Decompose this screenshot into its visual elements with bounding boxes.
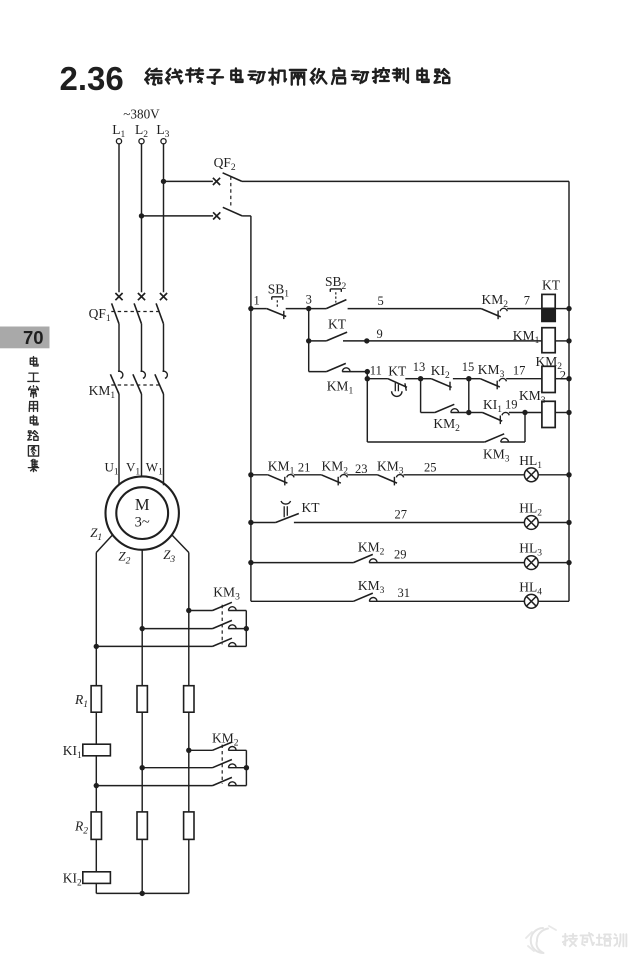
wire V1 to motor [141, 394, 143, 476]
wire rotor right down [188, 553, 190, 686]
junction right bus HL1 [566, 472, 571, 477]
wire corner to KM2 contact [421, 412, 435, 414]
svg-text:KT: KT [388, 364, 407, 379]
wire KI2 to node 15 [453, 378, 469, 380]
wire left R2 to KI2 [95, 839, 97, 871]
junction node 15 [466, 376, 471, 381]
wire bus to KT delayed-opening contact [251, 522, 276, 524]
contact KM2 NO (lamp row) [353, 554, 377, 562]
label KM2 (row1 contact) [482, 292, 509, 310]
node label 7 [524, 293, 530, 307]
wire node11 to KT delayed contact [367, 378, 388, 380]
resistor R2 (left element) [91, 812, 101, 840]
junction rotor centre line KM3 tap [140, 626, 145, 631]
svg-text:~380V: ~380V [123, 107, 160, 122]
wire KM3 branch2 left [142, 628, 212, 630]
junction node 13 [418, 376, 423, 381]
wire KM3 NC to KM2 coil [506, 378, 542, 380]
label KM3 (row3 contact) [478, 362, 505, 380]
wire L1 phase down [118, 144, 120, 292]
wire KM2 contact to junction [451, 412, 469, 414]
wire junction to KI1 contact [469, 412, 483, 414]
node label 5 [378, 294, 384, 308]
contact KI1 NC (overcurrent) [483, 412, 510, 424]
wire KM3 branch1 right [228, 610, 246, 612]
wire right R2 to star point [188, 839, 190, 893]
svg-text:31: 31 [398, 586, 411, 600]
label R2 [74, 819, 88, 837]
time relay coil KT [542, 294, 555, 321]
wire L2 QF1 to KM1 [141, 324, 143, 372]
junction rotor left line KM2 tap [94, 783, 99, 788]
label Z3 [163, 547, 175, 565]
node label 17 [513, 363, 526, 377]
wire node9 to KM1 coil [367, 340, 542, 342]
contactor KM2 contact 3 [213, 777, 237, 785]
wire KM3 branch3 left [96, 645, 212, 647]
wire KM3 NO to lamp HL4 [369, 600, 524, 602]
wire KM1 coil to right bus [555, 340, 569, 342]
wire KM2 branch2 left [142, 767, 212, 769]
wire HL1 to right bus [538, 474, 569, 476]
wire node11 down to row5 [366, 379, 368, 442]
wire QF2 pole 2 to control bus corner [242, 215, 251, 217]
wire to KM3 NC lamp row [347, 474, 377, 476]
label KI1 (contact) [483, 397, 502, 415]
wire KM3 branch3 right [228, 645, 246, 647]
svg-text:2: 2 [560, 369, 566, 383]
overcurrent relay KI2 coil [83, 872, 111, 884]
resistor R1 (right element) [184, 686, 194, 713]
wire SB2 to KM2 NC [348, 308, 482, 310]
junction KM2 shorting bar middle [244, 765, 249, 770]
wire node3 down [308, 309, 310, 341]
wire node11 vertical link [366, 372, 368, 379]
label U1 [105, 459, 119, 477]
node label 1 [254, 293, 260, 307]
contactor KM2 contact 2 [213, 760, 237, 768]
svg-text:M: M [135, 495, 150, 514]
wire L2 to QF2 pole 2 [142, 215, 214, 217]
junction rotor left line KM3 tap [94, 644, 99, 649]
svg-text:11: 11 [370, 363, 382, 377]
motor label 3~ [135, 515, 150, 531]
contact KM3 NC (lamp row) [378, 475, 404, 486]
junction row4 under node15 [466, 410, 471, 415]
junction on L3 for control tap [161, 179, 166, 184]
label KM2 (lamp row contact) [322, 459, 349, 477]
pushbutton SB1 (NC stop) [267, 297, 286, 319]
junction node 1 [248, 306, 253, 311]
node label 2 [560, 369, 566, 383]
contactor KM3 contact 1 [213, 602, 237, 610]
node label 13 [413, 360, 426, 374]
contact KT NO delayed-opening (lamp row) [276, 501, 299, 523]
wire L3 phase down [163, 144, 165, 292]
wire node3-row2 down [308, 341, 310, 372]
sidebar page tab 70 [0, 327, 50, 349]
wire KM2 shorting bar [245, 750, 247, 785]
wire rotor centre down [141, 550, 143, 686]
QF2 linkage dashed line [230, 177, 232, 208]
svg-text:23: 23 [355, 462, 368, 476]
svg-text:13: 13 [413, 360, 426, 374]
wire KM2 branch2 right [228, 767, 246, 769]
contactor KM2 contact 1 [213, 742, 237, 750]
resistor R1 (left element) [91, 686, 101, 713]
wire bus to KM1 NC [251, 474, 268, 476]
contact KM3 NO self-latch [485, 434, 509, 442]
page title number 2.36 [60, 60, 124, 97]
wire centre R1 down [141, 712, 143, 812]
label Z2 [118, 549, 130, 567]
junction left bus HL3 [248, 560, 253, 565]
svg-text:KT: KT [328, 316, 347, 331]
circuit breaker QF1 (3 poles) [112, 293, 168, 324]
wire to KM2 NC lamp row [294, 474, 322, 476]
wire left R1 to KI1 [95, 712, 97, 744]
terminal L1 [112, 122, 125, 144]
wire L3 QF1 to KM1 [163, 324, 165, 372]
wire node1 to SB1 [251, 308, 267, 310]
wire KT to lamp HL2 [294, 522, 525, 524]
terminal L3 [156, 122, 169, 144]
contactor KM1 main contacts (3 poles) [110, 371, 167, 394]
svg-text:1: 1 [254, 293, 260, 307]
node label 31 [398, 586, 411, 600]
junction rotor right line KM3 tap [186, 608, 191, 613]
contactor coil KM2 [542, 366, 555, 392]
label QF2 [214, 155, 236, 173]
wire KM2 NC to KT coil [507, 308, 542, 310]
junction KM3 shorting bar middle [244, 626, 249, 631]
contact KM1 NC (lamp row) [268, 475, 294, 486]
KM1 linkage dashed line [111, 384, 160, 386]
contact KM2 NO (stage interlock) [435, 404, 459, 412]
label HL1 [519, 453, 542, 471]
contactor coil KM3 [542, 401, 555, 427]
svg-text:3: 3 [306, 292, 312, 306]
junction node 9 [364, 338, 369, 343]
contact KI2 NC (overcurrent) [431, 379, 451, 391]
label SB1 [268, 281, 290, 299]
label Z1 [90, 525, 102, 543]
junction rotor centre line KM2 tap [140, 765, 145, 770]
pushbutton SB2 (NO start) [326, 289, 346, 309]
motor M inner circle [116, 487, 168, 539]
svg-text:KT: KT [542, 277, 561, 292]
svg-text:KT: KT [302, 500, 321, 515]
node label 27 [395, 508, 408, 522]
label KI2 (contact) [431, 363, 450, 381]
wire KM3 latch to corner [501, 441, 525, 443]
wire KM3 shorting bar [245, 611, 247, 647]
wire node13 down [420, 379, 422, 413]
svg-text:27: 27 [395, 508, 408, 522]
svg-text:5: 5 [378, 294, 384, 308]
junction right bus row2 [566, 338, 571, 343]
label KM3 (lamp row contact) [377, 459, 404, 477]
svg-text:25: 25 [424, 461, 437, 475]
svg-text:70: 70 [23, 327, 44, 348]
wire bus to KM2 NO lamp row [251, 562, 354, 564]
label KM1 (coil) [513, 328, 540, 346]
wire bus to KM3 NO lamp row [251, 600, 354, 602]
node label 21 [298, 461, 311, 475]
wire KT delayed to node 13 [405, 378, 420, 380]
junction node 11 upper [365, 369, 370, 374]
contact KM1 NO self-latch [326, 363, 350, 371]
label KM2 (rotor) [212, 731, 239, 749]
node label 19 [505, 398, 518, 412]
svg-text:29: 29 [394, 547, 407, 561]
terminal L2 [135, 122, 148, 144]
wire KM3 NC to lamp HL1 [403, 474, 524, 476]
label KT (lamp row contact) [302, 500, 321, 515]
junction right bus HL2 [566, 520, 571, 525]
page title text (Chinese) [145, 68, 449, 85]
label W1 [146, 459, 163, 477]
junction right bus row3 [566, 376, 571, 381]
wire KM3 coil to right bus [555, 412, 569, 414]
contact KM3 NO (lamp row) [353, 593, 377, 601]
KM2 linkage dashed line [221, 745, 223, 784]
wire KI1 to R2 [95, 756, 97, 812]
wire KM3 branch1 left [189, 610, 213, 612]
svg-text:7: 7 [524, 293, 530, 307]
junction node 3 [306, 306, 311, 311]
KM3 linkage dashed line [221, 605, 223, 645]
label KM1 (latch contact) [327, 378, 354, 396]
junction node 19 branch [522, 410, 527, 415]
junction node3-row2 [306, 338, 311, 343]
sidebar book title (Chinese, vertical) [28, 357, 39, 472]
wire rotor star point [96, 892, 189, 894]
node label 11 [370, 363, 382, 377]
watermark logo and text (light gray) [526, 926, 626, 953]
label R1 [74, 692, 88, 710]
junction left bus HL1 [248, 472, 253, 477]
overcurrent relay KI1 coil [83, 744, 111, 756]
wire KM2 branch1 left [189, 749, 213, 751]
junction right bus row4 [566, 410, 571, 415]
indicator lamp HL4 [524, 594, 538, 608]
junction left bus HL2 [248, 520, 253, 525]
junction node 11 lower [365, 376, 370, 381]
label QF1 [89, 306, 111, 324]
wire HL4 to right bus [538, 600, 569, 602]
label KM3 (latch contact) [483, 446, 510, 464]
junction right bus HL3 [566, 560, 571, 565]
resistor R1 (centre element) [137, 686, 147, 713]
circuit breaker QF2 pole 2 [213, 207, 242, 219]
wire KI1 to node 19 [509, 412, 525, 414]
contactor KM3 contact 2 [213, 620, 237, 628]
label HL2 [519, 501, 542, 519]
wire right R1 down [188, 712, 190, 812]
rotor lead Z1 diagonal [96, 535, 113, 553]
label V1 [126, 459, 140, 477]
label KI2 [63, 870, 82, 888]
wire left control bus [250, 216, 252, 601]
indicator lamp HL3 [524, 556, 538, 570]
indicator lamp HL1 [524, 468, 538, 482]
label KI1 [63, 743, 82, 761]
label KT (row2 contact) [328, 316, 347, 331]
contact KM2 NC (lamp row) [321, 475, 347, 486]
label KM3 (rotor) [213, 585, 240, 603]
wire KM2 branch1 right [228, 749, 246, 751]
wire KM2 branch3 right [228, 785, 246, 787]
wire L1 QF1 to KM1 [118, 324, 120, 372]
wire KM3 branch2 right [228, 628, 246, 630]
junction on L2 for control tap [139, 213, 144, 218]
contactor KM3 contact 3 [213, 638, 237, 646]
svg-text:3~: 3~ [135, 515, 150, 531]
label HL4 [519, 579, 542, 597]
label KM2 (row4 contact) [433, 416, 460, 434]
resistor R2 (centre element) [137, 812, 147, 840]
svg-text:9: 9 [377, 327, 383, 341]
wire HL3 to right bus [538, 562, 569, 564]
wire to KM1 latch contact [309, 371, 327, 373]
wire HL2 to right bus [538, 522, 569, 524]
wire to KT contact [309, 340, 327, 342]
label KM3 (coil) [519, 388, 546, 406]
wire SB1 to node 3 [286, 308, 309, 310]
wire row5 left run [367, 441, 485, 443]
wire node15 to KM3 NC [469, 378, 481, 380]
node label 23 [355, 462, 368, 476]
label KT (delayed contact) [388, 364, 407, 379]
motor label M [135, 495, 150, 514]
wire centre R2 to star point [141, 839, 143, 893]
label KM1 (main) [89, 383, 116, 401]
label SB2 [325, 274, 347, 292]
wire node19 to KM3 coil [525, 412, 542, 414]
node label 15 [462, 360, 475, 374]
node label 9 [377, 327, 383, 341]
contact KM2 NC (interlock in KT branch) [481, 308, 507, 319]
wire node15 down [468, 379, 470, 413]
wire right control bus [568, 181, 570, 601]
contactor coil KM1 [542, 328, 555, 353]
svg-text:21: 21 [298, 461, 311, 475]
node label 29 [394, 547, 407, 561]
label KT (coil) [542, 277, 561, 292]
contact KT delayed-closing (on-delay NO) [388, 379, 407, 397]
label ~380V [123, 107, 160, 122]
wire L2 phase down [141, 144, 143, 292]
wire KT coil to right bus [555, 308, 569, 310]
contact KT NO (instantaneous) [326, 332, 347, 341]
contact KM3 NC (interlock) [480, 378, 506, 389]
svg-text:2.36: 2.36 [60, 60, 124, 97]
indicator lamp HL2 [524, 516, 538, 530]
wire KT contact to node 9 [343, 340, 367, 342]
junction right bus row1 [566, 306, 571, 311]
resistor R2 (right element) [184, 812, 194, 840]
wire row5 up to node19 [524, 413, 526, 443]
label KM3 (lamp NO contact) [358, 578, 385, 596]
wire U1 to motor [118, 394, 120, 485]
wire rotor left down [95, 553, 97, 686]
svg-text:15: 15 [462, 360, 475, 374]
rotor lead Z3 diagonal [172, 535, 189, 553]
label KM1 (lamp row contact) [268, 459, 295, 477]
wire QF2 pole 1 to right bus [242, 180, 569, 182]
svg-text:17: 17 [513, 363, 526, 377]
wire KM2 coil to right bus [555, 378, 569, 380]
node label 3 [306, 292, 312, 306]
wire node3 to SB2 [309, 308, 327, 310]
svg-text:19: 19 [505, 398, 518, 412]
wire KM2 NO to lamp HL3 [369, 562, 524, 564]
motor M outer circle [106, 476, 179, 549]
wire KM2 branch3 left [96, 785, 212, 787]
wire node13 to KI2 contact [421, 378, 432, 380]
wire L3 to QF2 pole 1 [164, 180, 213, 182]
wire W1 to motor [163, 394, 165, 485]
junction star point centre [140, 891, 145, 896]
wire KI2 down to star point [95, 883, 97, 893]
node label 25 [424, 461, 437, 475]
wire KM1 latch to node 11 [342, 371, 367, 373]
circuit breaker QF2 pole 1 [213, 173, 242, 185]
label KM2 (coil) [536, 354, 563, 372]
label KM2 (lamp NO contact) [358, 539, 385, 557]
QF1 linkage dashed line [111, 311, 160, 313]
junction rotor right line KM2 tap [186, 748, 191, 753]
label HL3 [519, 541, 542, 559]
